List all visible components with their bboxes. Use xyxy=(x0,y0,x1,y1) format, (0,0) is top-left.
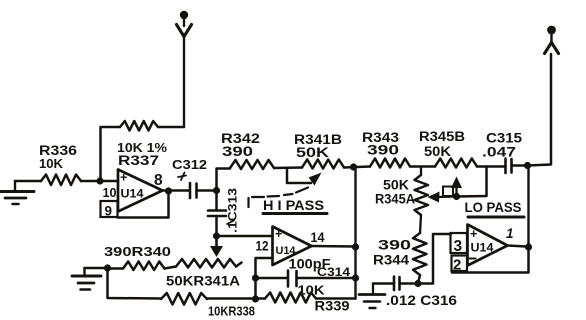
node E (R344/C316/U14c+ junction) xyxy=(414,280,421,287)
node J (C314 right on mid rail) xyxy=(352,274,359,281)
wire R345A to R344 xyxy=(420,215,421,233)
polarity mark at C313 xyxy=(227,221,234,225)
svg-text:8: 8 xyxy=(154,172,163,189)
potentiometer R341A 50K xyxy=(165,267,177,269)
wiper arrow of R345B (pointing up) xyxy=(455,185,457,197)
svg-text:U14: U14 xyxy=(471,243,495,255)
feedback wire U14a output to pin9 box xyxy=(118,191,169,218)
svg-text:U14: U14 xyxy=(121,189,145,201)
node K (inverting node at R339) xyxy=(252,295,259,302)
svg-text:10K: 10K xyxy=(298,283,326,298)
op-amp U14b (pins 12,14) xyxy=(273,227,312,266)
resistor R339 10K xyxy=(256,297,266,300)
svg-text:50K: 50K xyxy=(296,145,329,160)
svg-text:+: + xyxy=(470,227,477,241)
node B (R341B/R343/mid rail junction) xyxy=(350,163,357,170)
svg-text:.012 C316: .012 C316 xyxy=(386,293,458,308)
potentiometer R345A 50K (vertical) xyxy=(415,175,429,215)
svg-text:1: 1 xyxy=(506,226,514,241)
wire node C to output terminal line xyxy=(528,54,552,166)
node G (C313/pin12/R341A wiper junction) xyxy=(213,232,220,239)
wire C315 to node C xyxy=(512,164,528,167)
svg-text:R345A: R345A xyxy=(375,192,415,207)
svg-text:H I PASS: H I PASS xyxy=(263,198,324,213)
wire R343 to R345B, tap down to R345A xyxy=(410,165,435,168)
svg-text:.1C313: .1C313 xyxy=(228,188,240,233)
wire U14b inverting input xyxy=(256,258,273,299)
wire U14a output to C312 xyxy=(163,189,190,192)
svg-text:R339: R339 xyxy=(315,298,350,314)
wire R337 to input terminal line xyxy=(158,126,184,129)
svg-text:U14: U14 xyxy=(276,245,297,257)
svg-text:C312: C312 xyxy=(172,157,207,172)
node H (U14b output on mid rail) xyxy=(352,243,359,250)
svg-text:.047: .047 xyxy=(482,145,516,160)
wire node D to C315 left side xyxy=(457,167,487,197)
ground GND1 (left of R336) xyxy=(14,181,16,190)
wire node E to U14c pin3 xyxy=(418,234,451,284)
svg-text:50K: 50K xyxy=(383,178,409,193)
wiper link square xyxy=(443,187,453,197)
svg-text:+: + xyxy=(120,171,127,185)
pin 2 box of U14c xyxy=(452,256,468,272)
pin 3 box of U14c xyxy=(451,233,468,253)
svg-text:390R340: 390R340 xyxy=(104,244,171,259)
input terminal arrow (top left) xyxy=(180,11,188,19)
svg-text:12: 12 xyxy=(256,239,269,254)
wire R342 to R341B xyxy=(274,166,302,169)
wire R336 to op-amp U14a input, node at R337 tap xyxy=(81,180,118,183)
resistor R340 390 xyxy=(108,267,124,270)
svg-text:C314: C314 xyxy=(317,267,351,279)
node A (C312/R342/C313 junction) xyxy=(213,187,220,194)
wire node G to U14b pin12 xyxy=(217,235,273,238)
mid vertical rail node B down to R339 xyxy=(354,167,356,299)
wiper tap of R341B (step wire + arrow) xyxy=(287,168,311,183)
wire R344 to node E xyxy=(419,275,421,281)
wiper arrow of R341A (pointing down) xyxy=(215,238,218,248)
resistor R343 390 xyxy=(370,159,410,168)
capacitor C314 100pF xyxy=(256,277,288,280)
svg-text:10: 10 xyxy=(103,185,117,200)
ground GND3 (at C316) xyxy=(372,284,374,294)
node D (wiper junction) xyxy=(453,193,460,200)
resistor R337 10K 1% (feedback) xyxy=(120,121,158,131)
polarity mark at C312 xyxy=(181,173,185,181)
capacitor C315 .047 xyxy=(504,159,507,174)
capacitor C313 (below node A) xyxy=(215,191,218,210)
ground GND2 (left of R340) xyxy=(85,267,108,270)
svg-text:390: 390 xyxy=(367,142,399,158)
resistor R344 390 (vertical) xyxy=(413,233,427,275)
op-amp U14a (pins 10,9,8) xyxy=(118,170,163,212)
wire C312 to node A xyxy=(197,189,217,192)
node L (ground node R340/R338) xyxy=(104,264,111,271)
svg-text:R344: R344 xyxy=(373,253,410,268)
potentiometer R341B 50K xyxy=(302,160,344,169)
potentiometer R345B 50K xyxy=(435,159,477,168)
svg-text:2: 2 xyxy=(453,257,461,274)
node junction R336/R337/pin10 xyxy=(96,177,103,184)
node I (inverting node at C314) xyxy=(252,274,259,281)
wiper arrow of R345A xyxy=(428,192,440,203)
svg-text:R337: R337 xyxy=(118,153,159,168)
svg-text:390: 390 xyxy=(378,237,411,253)
node F (U14c output) xyxy=(525,243,532,250)
wire node up to R337 xyxy=(101,127,121,181)
svg-text:50K: 50K xyxy=(424,144,451,159)
svg-text:R345B: R345B xyxy=(419,129,465,144)
svg-text:50KR341A: 50KR341A xyxy=(166,274,240,289)
wire R343/R345B junction down to R345A xyxy=(420,167,422,176)
output terminal arrow (top right) xyxy=(547,26,556,35)
wire U14b output to mid rail xyxy=(312,245,356,248)
wire GND1 to R336 xyxy=(15,180,41,183)
resistor R338 10K xyxy=(161,293,207,305)
svg-text:10KR338: 10KR338 xyxy=(208,305,255,319)
svg-text:14: 14 xyxy=(311,230,325,245)
wire R341B to node B xyxy=(344,167,370,168)
feedback wire U14c output to pin2 box xyxy=(452,247,529,273)
pin 9 box of U14a xyxy=(101,201,118,217)
vertical rail node C to U14c output xyxy=(527,166,529,248)
svg-text:LO PASS: LO PASS xyxy=(465,200,522,215)
svg-text:+: + xyxy=(275,227,282,241)
svg-text:3: 3 xyxy=(454,238,463,255)
op-amp U14c (pins 3,2,1) xyxy=(468,225,508,266)
wire node A up to R342 xyxy=(217,169,231,191)
wire U14c output to node F xyxy=(508,246,527,247)
capacitor C316 .012 xyxy=(393,277,396,291)
node C (C315/output rail junction) xyxy=(524,162,531,169)
svg-text:9: 9 xyxy=(105,204,113,219)
resistor R342 390 xyxy=(230,160,274,169)
capacitor C312 xyxy=(189,183,192,198)
node U14a output xyxy=(165,187,172,194)
svg-text:10K: 10K xyxy=(39,156,64,171)
resistor R336 10K xyxy=(41,175,81,186)
svg-text:C315: C315 xyxy=(486,131,523,146)
wire R345B to C315 xyxy=(477,165,504,168)
wire node L down to R338 xyxy=(108,268,162,299)
svg-text:390: 390 xyxy=(222,144,253,159)
